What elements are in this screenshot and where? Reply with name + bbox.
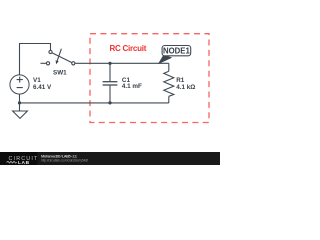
capacitor C1 bbox=[103, 63, 118, 103]
svg-text:NODE1: NODE1 bbox=[163, 47, 191, 56]
node dot cap bottom bbox=[108, 101, 111, 104]
voltage source V1 bbox=[10, 75, 29, 103]
logo resistor zigzag bbox=[7, 161, 17, 163]
svg-text:SW1: SW1 bbox=[53, 70, 67, 77]
wire switch stub left bbox=[41, 62, 47, 64]
node dot bottom V1 bbox=[18, 101, 21, 104]
svg-text:4.1 kΩ: 4.1 kΩ bbox=[176, 84, 195, 91]
wire V1 top to switch bbox=[20, 44, 51, 75]
svg-text:6.41 V: 6.41 V bbox=[33, 84, 52, 91]
svg-text:4.1 mF: 4.1 mF bbox=[122, 83, 142, 90]
wire bottom rail bbox=[20, 102, 169, 104]
switch SW1 bbox=[46, 49, 75, 65]
NODE1 flag bbox=[158, 46, 191, 65]
svg-text:RC Circuit: RC Circuit bbox=[110, 44, 147, 53]
footer bar bbox=[0, 152, 220, 165]
ground bbox=[13, 103, 28, 119]
RC Circuit dashed box bbox=[90, 34, 209, 123]
svg-text:http://circuitlab.com/c/ab28a7: http://circuitlab.com/c/ab28a7y548f bbox=[41, 158, 88, 162]
wire switch to resistor top bbox=[75, 62, 169, 64]
node dot cap top bbox=[108, 62, 111, 65]
svg-text:LAB: LAB bbox=[18, 160, 30, 165]
svg-text:R1: R1 bbox=[176, 77, 185, 84]
resistor R1 bbox=[164, 63, 174, 103]
